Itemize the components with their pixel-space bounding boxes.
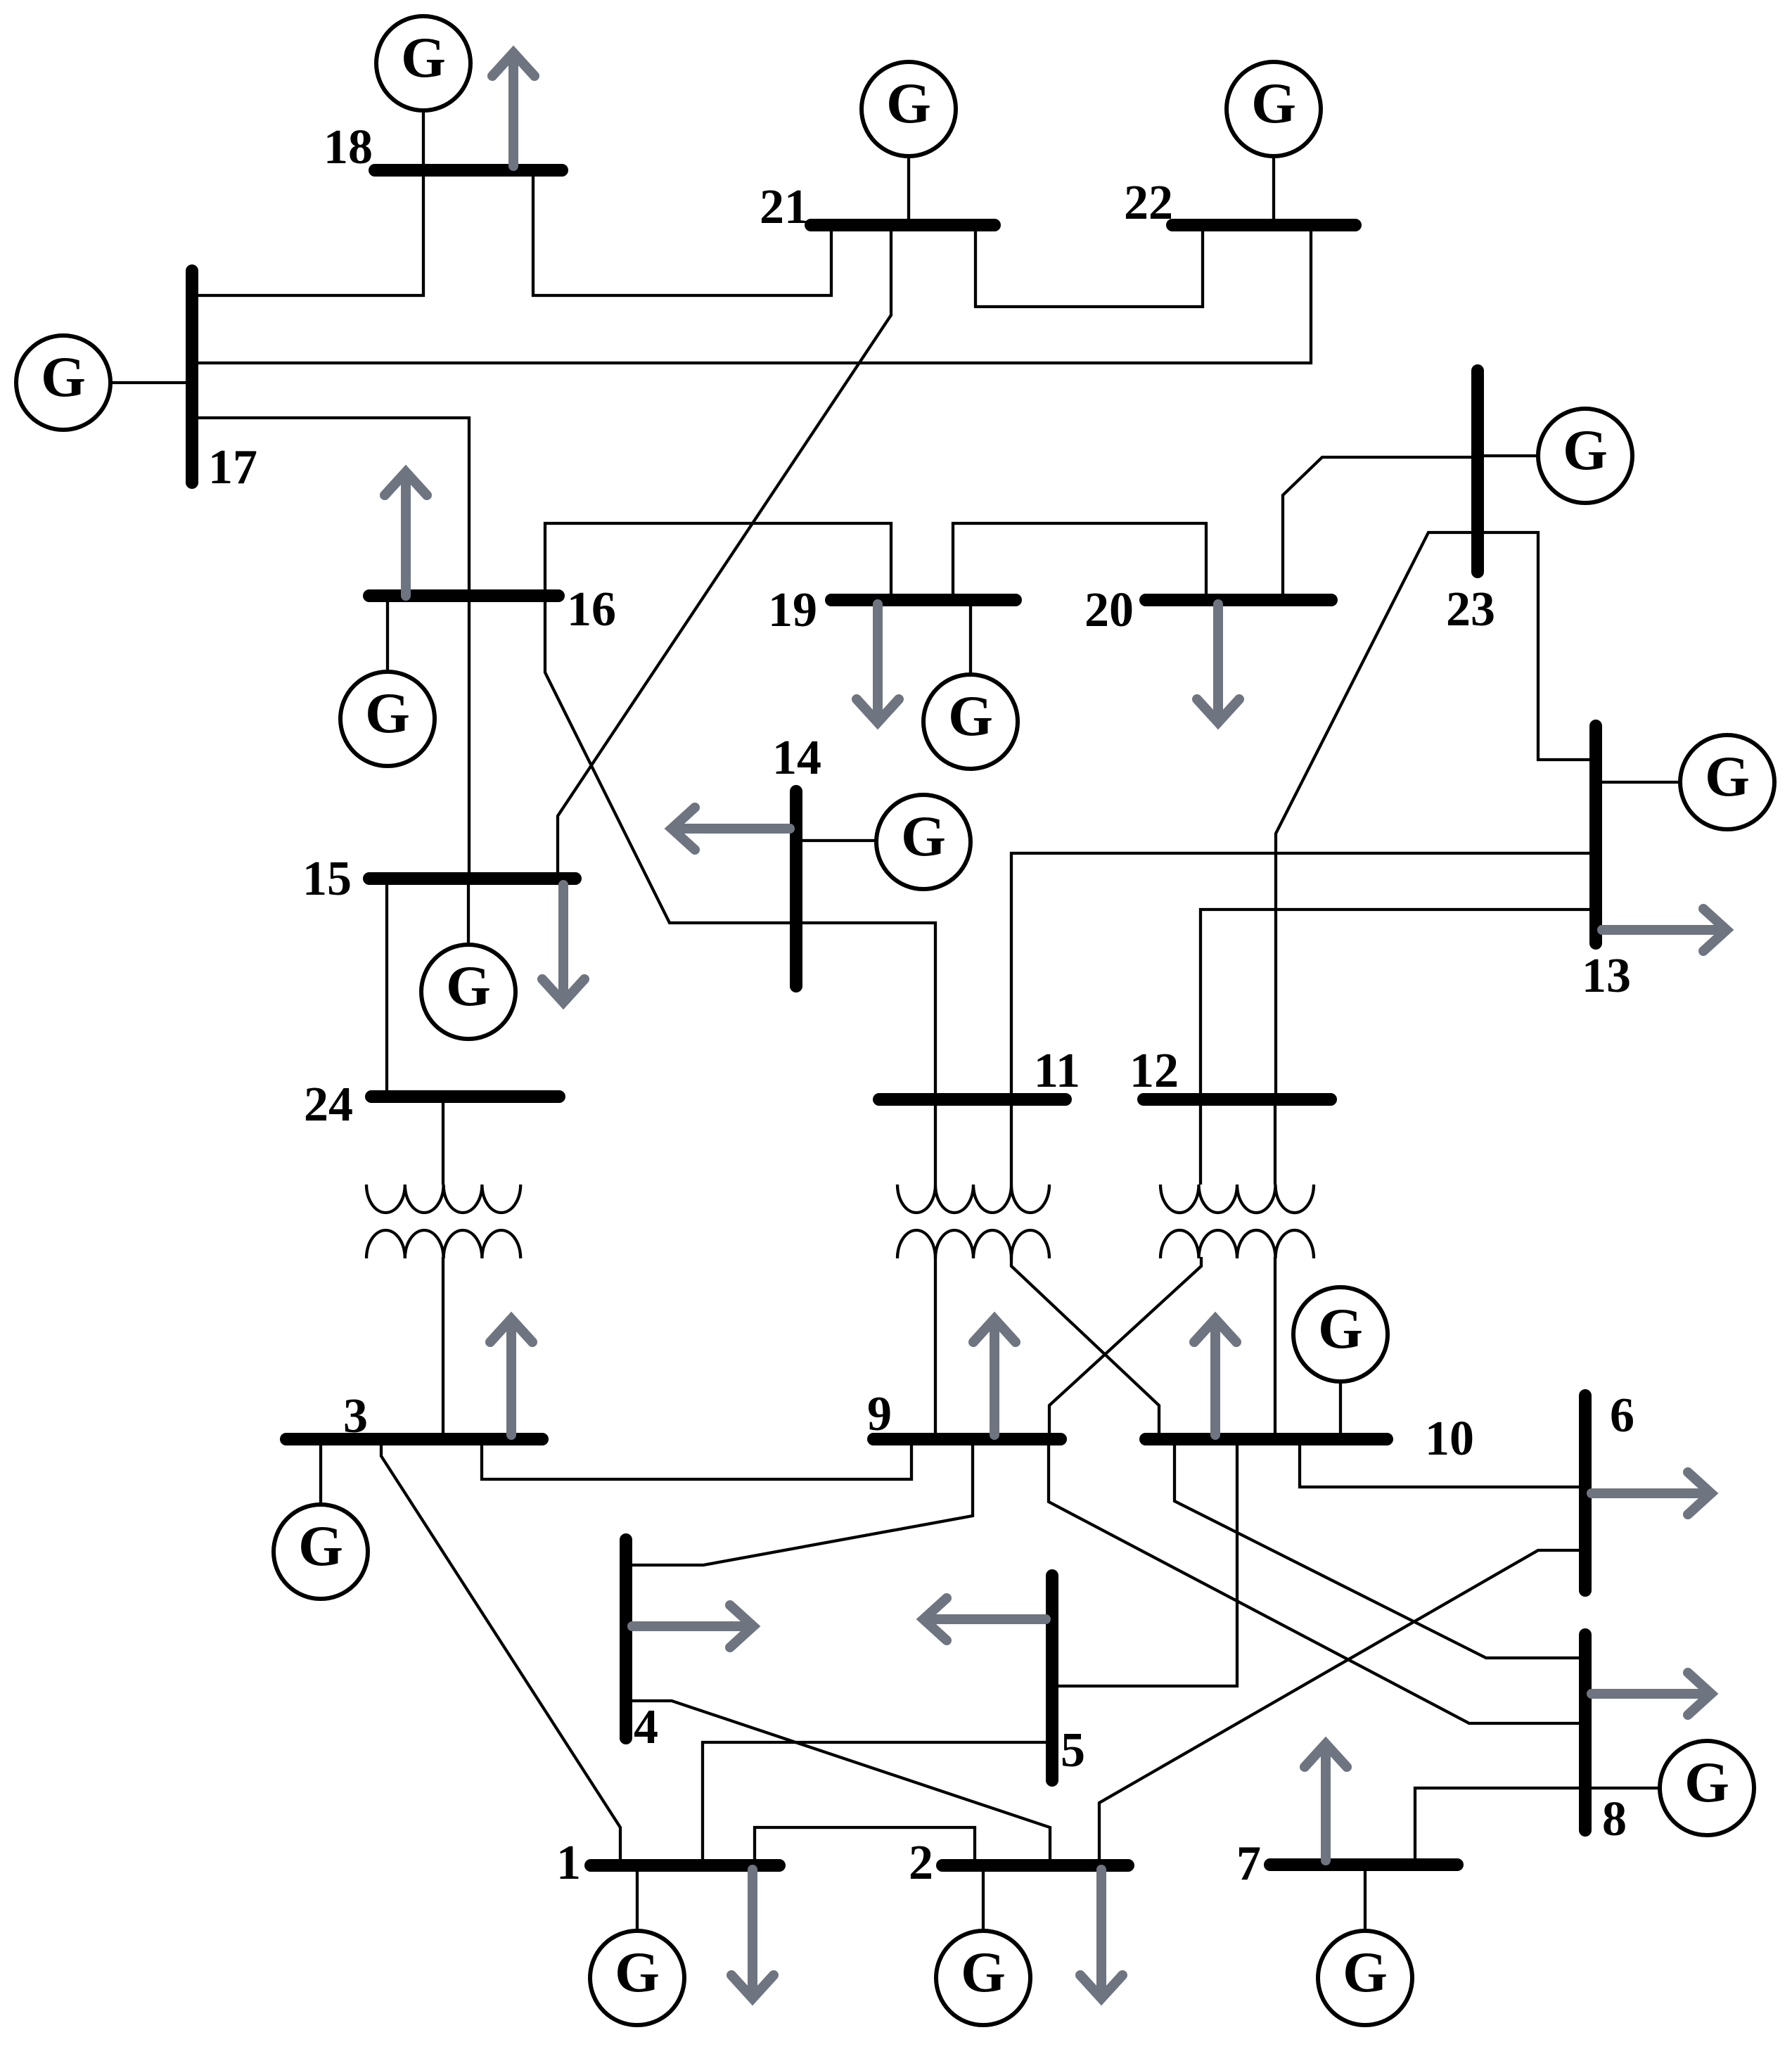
bus 19 — [831, 594, 1016, 606]
svg-text:24: 24 — [304, 1078, 353, 1132]
wire line 15-16 — [468, 596, 471, 879]
svg-text:15: 15 — [302, 852, 352, 906]
svg-text:G: G — [1343, 1940, 1388, 2004]
wire line transformer feeder 11-10 — [1011, 1257, 1159, 1439]
svg-text:13: 13 — [1582, 949, 1631, 1003]
generator G at bus 16 — [340, 596, 435, 766]
wire line transformer feeder 24 upper — [442, 1097, 444, 1185]
load arrow at bus 20 — [1197, 604, 1239, 722]
bus 22 — [1172, 219, 1355, 231]
svg-text:4: 4 — [634, 1700, 658, 1754]
generator G at bus 23 — [1478, 409, 1632, 503]
load arrow at bus 19 — [857, 604, 899, 722]
generator G at bus 21 — [862, 62, 956, 225]
load arrow at bus 14 — [672, 808, 790, 850]
wire line transformer feeder 24-3 lower — [442, 1257, 444, 1439]
svg-text:17: 17 — [208, 440, 257, 494]
wire line 1-5 — [703, 1742, 1052, 1865]
bus 3 — [286, 1433, 542, 1445]
wire line 14-16 and 11-14 — [545, 596, 935, 1099]
svg-text:G: G — [1705, 744, 1750, 808]
load arrow at bus 18 — [492, 53, 535, 166]
bus 14 — [790, 791, 802, 986]
wire line transformer feeder 11 upper a — [934, 1099, 937, 1185]
generator G at bus 22 — [1227, 62, 1321, 225]
svg-text:7: 7 — [1236, 1837, 1261, 1891]
bus 15 — [369, 872, 575, 885]
load arrow at bus 16 — [385, 472, 427, 596]
generator G at bus 1 — [590, 1865, 684, 2025]
svg-text:8: 8 — [1602, 1792, 1627, 1846]
load arrow at bus 9 — [973, 1319, 1016, 1435]
svg-text:22: 22 — [1124, 176, 1173, 230]
svg-text:G: G — [41, 345, 86, 409]
svg-text:6: 6 — [1610, 1389, 1634, 1443]
wire line 7-8 — [1415, 1788, 1585, 1865]
bus 2 — [942, 1859, 1128, 1872]
wire line 12-23 — [1276, 532, 1478, 1099]
wire line 20-23 — [1283, 457, 1478, 600]
svg-text:G: G — [948, 684, 993, 748]
svg-text:3: 3 — [343, 1389, 368, 1443]
bus 9 — [873, 1433, 1061, 1445]
wire line 16-17 — [192, 418, 469, 596]
bus 4 — [620, 1540, 632, 1738]
svg-text:G: G — [901, 804, 946, 868]
wire line 5-10 — [1052, 1439, 1237, 1686]
svg-text:G: G — [365, 681, 410, 745]
wire line 12-13 — [1201, 909, 1596, 1099]
load arrow at bus 10 — [1194, 1319, 1236, 1435]
generator G at bus 17 — [16, 336, 186, 430]
bus 21 — [811, 219, 994, 231]
wire line 18-21 — [533, 170, 831, 295]
wire line 21-22 — [975, 225, 1203, 307]
generator G at bus 19 — [923, 600, 1018, 769]
load arrow at bus 7 — [1305, 1744, 1347, 1860]
load arrow at bus 13 — [1602, 909, 1727, 951]
svg-text:G: G — [615, 1940, 660, 2004]
svg-text:11: 11 — [1034, 1044, 1080, 1098]
generator G at bus 15 — [421, 879, 516, 1039]
svg-text:12: 12 — [1129, 1044, 1179, 1098]
svg-text:G: G — [1318, 1296, 1363, 1360]
bus 12 — [1144, 1093, 1331, 1106]
generator G at bus 2 — [936, 1865, 1030, 2025]
load arrow at bus 1 — [731, 1870, 774, 1998]
svg-text:G: G — [401, 25, 446, 89]
bus 1 — [591, 1859, 779, 1872]
svg-text:G: G — [298, 1514, 343, 1578]
wire line 11-13 — [1011, 853, 1596, 1099]
bus 8 — [1579, 1635, 1592, 1830]
load arrow at bus 5 — [923, 1598, 1046, 1640]
svg-text:G: G — [961, 1940, 1006, 2004]
wire line 16-19 — [545, 523, 891, 600]
bus 11 — [879, 1093, 1065, 1106]
bus 6 — [1579, 1396, 1592, 1590]
generator G at bus 10 — [1293, 1287, 1388, 1439]
generator G at bus 8 — [1585, 1741, 1754, 1835]
load arrow at bus 3 — [490, 1319, 532, 1435]
load arrow at bus 2 — [1080, 1870, 1122, 1998]
svg-text:18: 18 — [324, 120, 373, 174]
bus 7 — [1270, 1858, 1457, 1871]
wire line 15-24 — [385, 879, 388, 1097]
bus 10 — [1146, 1433, 1387, 1445]
svg-text:16: 16 — [567, 582, 616, 637]
svg-text:10: 10 — [1425, 1412, 1474, 1466]
transformer 3-24 coils — [366, 1185, 520, 1258]
generator G at bus 3 — [274, 1439, 368, 1599]
generator G at bus 18 — [376, 16, 471, 170]
svg-text:5: 5 — [1061, 1723, 1085, 1777]
load arrow at bus 4 — [632, 1605, 753, 1647]
bus 18 — [375, 164, 562, 177]
generator G at bus 13 — [1596, 735, 1774, 829]
bus 23 — [1471, 371, 1484, 572]
wire line 3-9 — [482, 1439, 911, 1479]
wire line 8-10 — [1175, 1439, 1585, 1658]
svg-text:G: G — [446, 954, 491, 1018]
transformer 9/10-12 coils — [1160, 1185, 1314, 1258]
bus 24 — [371, 1090, 559, 1103]
wire line 17-18 — [192, 170, 423, 295]
wire line 2-6 — [1099, 1550, 1585, 1865]
wire line 19-20 — [953, 523, 1206, 600]
wire line transformer feeder 12-10 — [1274, 1257, 1276, 1439]
svg-text:G: G — [1563, 418, 1608, 482]
bus 13 — [1589, 726, 1602, 943]
transformer 9/10-11 coils — [897, 1185, 1049, 1258]
wire line 17-22 — [192, 225, 1311, 363]
wire line transformer feeder 12 upper a — [1199, 1099, 1202, 1185]
bus 17 — [186, 271, 198, 483]
svg-text:G: G — [1251, 71, 1296, 135]
svg-text:G: G — [886, 71, 931, 135]
svg-text:23: 23 — [1446, 582, 1495, 637]
wire line 8-9 — [1049, 1439, 1585, 1723]
wire line transformer feeder 11 upper b — [1010, 1099, 1013, 1185]
load arrow at bus 8 — [1592, 1673, 1711, 1715]
wire line 6-10 — [1300, 1439, 1585, 1487]
svg-text:G: G — [1684, 1750, 1729, 1814]
wire line 1-3 — [381, 1439, 620, 1865]
svg-text:1: 1 — [556, 1836, 581, 1890]
wire line 13-23 — [1478, 532, 1596, 760]
generator G at bus 7 — [1318, 1865, 1412, 2025]
wire line transformer feeder 12 upper b — [1274, 1099, 1276, 1185]
svg-text:20: 20 — [1084, 583, 1134, 637]
bus 5 — [1046, 1576, 1058, 1780]
svg-text:2: 2 — [909, 1836, 933, 1890]
wire line transformer feeder 12-9 — [1049, 1257, 1201, 1439]
generator G at bus 14 — [802, 795, 971, 889]
load arrow at bus 6 — [1592, 1472, 1711, 1514]
wire line 1-2 — [755, 1827, 975, 1865]
wire line 2-4 — [632, 1701, 1050, 1865]
wire line transformer feeder 11-9 — [934, 1257, 937, 1439]
svg-text:21: 21 — [760, 180, 809, 234]
svg-text:19: 19 — [768, 583, 817, 637]
load arrow at bus 15 — [542, 885, 584, 1002]
svg-text:14: 14 — [772, 731, 821, 785]
svg-text:9: 9 — [867, 1387, 892, 1441]
bus 16 — [369, 589, 558, 602]
bus 20 — [1146, 594, 1331, 606]
wire line 4-9 — [632, 1439, 973, 1565]
wire line 15-21 — [558, 225, 891, 879]
